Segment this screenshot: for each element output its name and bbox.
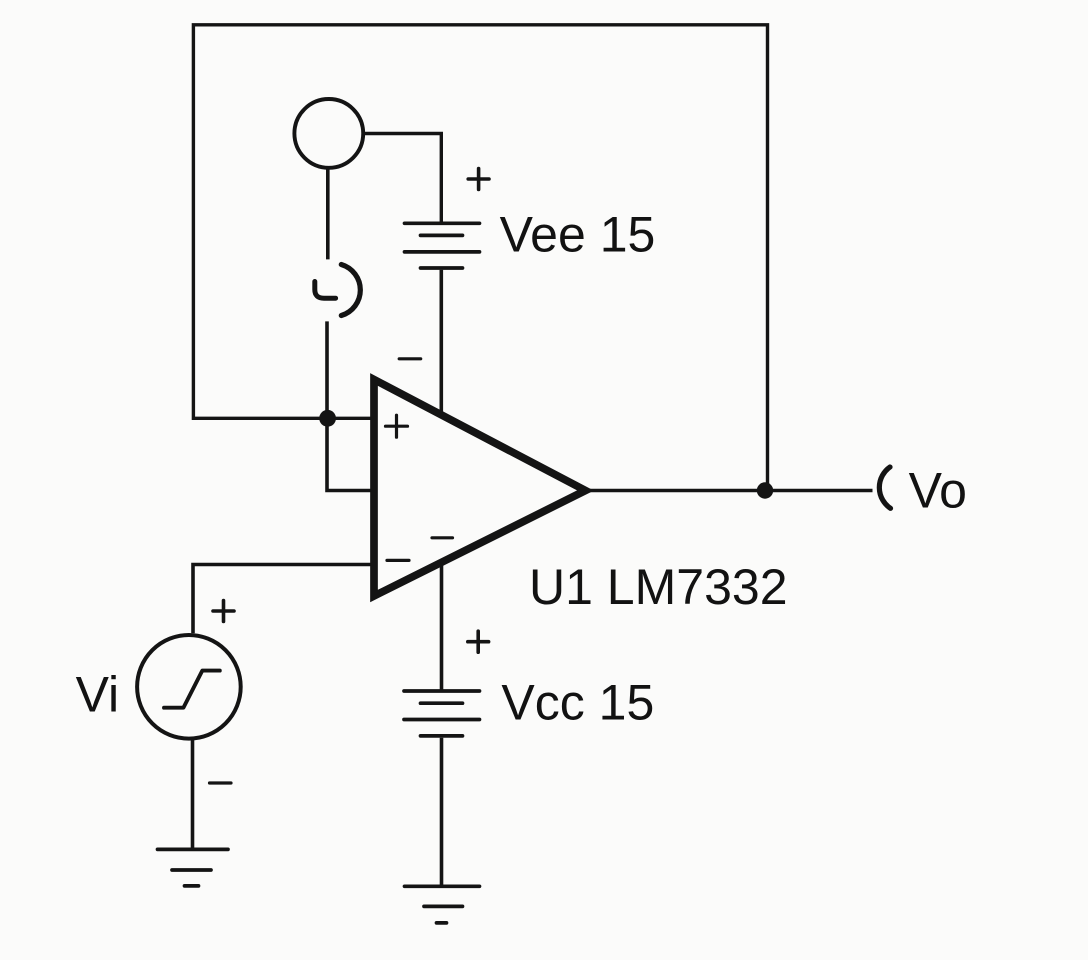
svg-text:Vi: Vi xyxy=(76,667,120,723)
svg-text:U1 LM7332: U1 LM7332 xyxy=(529,559,788,615)
svg-text:Vo: Vo xyxy=(909,463,967,519)
svg-text:Vcc 15: Vcc 15 xyxy=(501,674,654,730)
svg-text:Vee 15: Vee 15 xyxy=(500,207,656,263)
